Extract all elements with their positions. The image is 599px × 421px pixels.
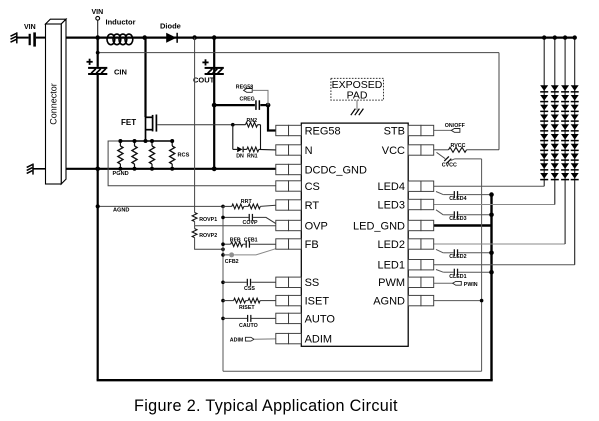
node CREG tap xyxy=(212,103,217,108)
svg-text:CFB2: CFB2 xyxy=(225,259,239,265)
pin LED1 xyxy=(408,260,434,270)
svg-text:LED1: LED1 xyxy=(377,260,405,272)
resistor ROVP2 xyxy=(194,226,196,229)
node RISET bus xyxy=(221,299,225,303)
wire RVCC to VIN route xyxy=(467,149,500,151)
svg-text:FB: FB xyxy=(305,239,319,251)
resistor RCS element 3 xyxy=(151,141,153,146)
svg-text:STB: STB xyxy=(384,125,405,137)
svg-text:LED_GND: LED_GND xyxy=(353,220,405,232)
wire OVP pin line xyxy=(195,225,276,227)
node inductor-diode junction xyxy=(142,35,147,40)
pin DCDC_GND xyxy=(276,164,302,174)
wire N-network left edge xyxy=(232,125,234,150)
wire AGND line xyxy=(98,205,223,207)
svg-text:ADIM: ADIM xyxy=(230,338,244,344)
op-amp U1 IC body xyxy=(301,123,408,346)
wire COVP to OVP pin xyxy=(253,217,276,223)
node gate junction xyxy=(231,123,235,127)
svg-text:AUTO: AUTO xyxy=(305,313,336,325)
wire exposed pad ground lead xyxy=(356,100,358,110)
wire STB lead xyxy=(434,129,452,131)
wire CSS to SS pin xyxy=(251,281,276,283)
wire LED1 to string4 xyxy=(434,264,575,266)
svg-text:CLED2: CLED2 xyxy=(449,254,466,260)
node REG58 junction xyxy=(266,103,271,108)
node diode-OVP junction xyxy=(192,35,197,40)
wire PGND rail xyxy=(98,168,276,170)
LED string 4 diodes xyxy=(571,85,579,180)
pin LED_GND xyxy=(408,220,434,230)
wire VIN terminal lead xyxy=(97,20,99,37)
wire RCS top rail xyxy=(120,140,172,142)
pin AUTO xyxy=(276,313,302,323)
svg-text:ADIM: ADIM xyxy=(305,334,333,346)
wire CAUTO to AUTO pin xyxy=(252,317,276,319)
pin LED2 xyxy=(408,239,434,249)
wire CFB2 stub xyxy=(223,254,229,256)
node CLED3 junction xyxy=(489,213,494,218)
pin FB xyxy=(276,239,302,249)
wire input cap to connector xyxy=(36,37,46,39)
svg-text:CVCC: CVCC xyxy=(442,162,457,168)
node bus top xyxy=(221,205,225,209)
node string 2 top xyxy=(553,35,557,39)
svg-text:REG58: REG58 xyxy=(305,125,341,137)
pin AGND xyxy=(408,295,434,305)
svg-text:RN1: RN1 xyxy=(247,153,258,159)
wire LED string 1 xyxy=(543,38,545,187)
terminal ON/OFF xyxy=(451,129,460,133)
wire REG58 pin feed xyxy=(268,105,276,130)
wire ground to input cap xyxy=(17,37,29,39)
svg-text:VIN: VIN xyxy=(24,24,36,31)
wire VIN thin route horizontal xyxy=(98,52,499,54)
resistor RRT xyxy=(232,204,244,209)
capacitor CREG xyxy=(255,100,257,110)
node COUT on PGND rail xyxy=(212,166,217,171)
capacitor CFB1 xyxy=(243,243,246,245)
pin OVP xyxy=(276,220,302,230)
capacitor CSS xyxy=(247,279,251,286)
resistor RFB xyxy=(231,242,243,247)
capacitor CIN xyxy=(88,67,107,75)
svg-text:RT: RT xyxy=(305,200,320,212)
svg-text:CIN: CIN xyxy=(114,68,127,77)
svg-text:DCDC_GND: DCDC_GND xyxy=(305,164,367,176)
transistor FET Q1 xyxy=(146,115,157,142)
svg-text:COVP: COVP xyxy=(243,220,258,226)
svg-text:PWIN: PWIN xyxy=(464,282,478,288)
diode DN xyxy=(237,147,242,153)
svg-text:Figure 2. Typical Application: Figure 2. Typical Application Circuit xyxy=(134,397,398,415)
wire CVCC to AGND bus xyxy=(451,159,455,161)
svg-text:RN2: RN2 xyxy=(247,118,258,124)
wire FET drain xyxy=(144,38,146,117)
ground input left xyxy=(11,32,17,43)
pin LED3 xyxy=(408,199,434,209)
pin RT xyxy=(276,200,302,210)
wire VIN thin route vertical xyxy=(498,53,500,150)
wire ADIM to pin xyxy=(254,338,276,340)
svg-text:VCC: VCC xyxy=(382,145,405,157)
svg-text:LED4: LED4 xyxy=(377,181,405,193)
node AGND pin junction xyxy=(480,299,484,303)
wire CFB2 to FB pin xyxy=(234,249,276,255)
pin N xyxy=(276,145,302,155)
svg-text:AGND: AGND xyxy=(113,207,129,213)
node CLED4 junction xyxy=(489,192,494,197)
terminal REG58 testpoint xyxy=(244,89,253,93)
svg-text:AGND: AGND xyxy=(373,296,405,308)
wire AGND bus bottom xyxy=(223,370,482,372)
wire N-network top edge xyxy=(233,124,246,126)
resistor RISET xyxy=(234,298,246,303)
svg-text:PGND: PGND xyxy=(113,171,129,177)
terminal ADIM xyxy=(245,337,254,341)
svg-text:CREG: CREG xyxy=(240,97,255,103)
node FET source on rail xyxy=(144,139,148,143)
capacitor CLED3 xyxy=(436,210,443,215)
svg-text:RISET: RISET xyxy=(239,305,255,311)
svg-text:DN: DN xyxy=(236,153,244,159)
wire LED string 3 xyxy=(564,38,566,244)
resistor RCS element 4 xyxy=(171,141,173,146)
wire ROVP node xyxy=(194,222,196,226)
polarity CIN + xyxy=(87,59,93,65)
pin STB xyxy=(408,125,434,135)
node COUT tap xyxy=(212,35,217,40)
wire CS kelvin route xyxy=(108,141,276,186)
node RFB bus xyxy=(221,242,225,246)
wire LED_GND pin xyxy=(434,224,492,226)
wire connector pin2 to PGND xyxy=(66,168,98,170)
svg-text:CS: CS xyxy=(305,181,320,193)
capacitor CAUTO xyxy=(247,315,251,322)
wire DN to RN1 xyxy=(244,148,247,150)
pin VCC xyxy=(408,145,434,155)
svg-text:PAD: PAD xyxy=(347,89,368,101)
wire LED2 to string3 xyxy=(434,243,566,245)
wire LED3 to string2 xyxy=(434,204,555,206)
node VIN on top rail xyxy=(95,35,100,40)
exposed pad xyxy=(331,78,384,100)
svg-text:ROVP2: ROVP2 xyxy=(199,233,217,239)
svg-text:CAUTO: CAUTO xyxy=(239,323,258,329)
polarity COUT + xyxy=(202,59,208,65)
svg-text:FET: FET xyxy=(121,118,136,127)
svg-text:OVP: OVP xyxy=(305,220,328,232)
wire LED_GND vertical xyxy=(490,195,492,381)
wire N-network bottom left xyxy=(233,148,237,150)
svg-text:RVCC: RVCC xyxy=(451,143,466,149)
pin SS xyxy=(276,277,302,287)
wire CAUTO lead xyxy=(223,317,247,319)
svg-text:Diode: Diode xyxy=(160,22,181,31)
svg-text:CLED1: CLED1 xyxy=(449,274,466,280)
pin LED4 xyxy=(408,181,434,191)
resistor ROVP1 xyxy=(192,213,197,222)
capacitor CLED2 xyxy=(436,249,443,252)
LED string 1 diodes xyxy=(540,85,548,180)
wire AGND bus vertical xyxy=(222,206,224,371)
wire N-network right edge xyxy=(260,125,262,150)
pin REG58 xyxy=(276,125,302,135)
wire OVP divider drop xyxy=(194,38,196,213)
wire VIN top rail xyxy=(66,36,575,38)
capacitor COUT xyxy=(205,67,224,75)
capacitor input filter xyxy=(29,34,31,45)
svg-text:CLED4: CLED4 xyxy=(449,196,466,202)
wire left PGND vertical xyxy=(97,75,99,381)
wire AGND pin lead xyxy=(434,300,482,302)
svg-text:PWM: PWM xyxy=(378,277,405,289)
wire PGND bottom border xyxy=(97,379,493,381)
wire CSS lead xyxy=(223,281,247,283)
wire RN1 to N pin xyxy=(259,148,276,151)
resistor RCS element 2 xyxy=(134,141,136,146)
svg-text:Inductor: Inductor xyxy=(106,18,136,27)
node PGND left junction xyxy=(95,167,100,172)
node ROVP2 bus xyxy=(221,248,225,252)
svg-text:CFB1: CFB1 xyxy=(244,237,258,243)
resistor RVCC xyxy=(449,147,467,152)
svg-text:COUT: COUT xyxy=(193,76,215,85)
wire RISET lead xyxy=(223,300,234,302)
LED string 2 diodes xyxy=(551,85,559,180)
inductor xyxy=(107,34,133,45)
node CLED1 junction xyxy=(489,270,494,275)
svg-text:ROVP1: ROVP1 xyxy=(199,217,217,223)
terminal PWIN xyxy=(453,281,462,285)
node COVP bus xyxy=(221,216,225,220)
svg-text:CSS: CSS xyxy=(244,286,255,292)
LED string 3 diodes xyxy=(561,85,569,180)
node CFB2 bus xyxy=(221,253,225,257)
node CLED2 junction xyxy=(489,251,494,256)
wire CREG branch xyxy=(214,104,255,106)
capacitor CVCC xyxy=(437,152,446,158)
wire CFB1 to FB pin xyxy=(250,243,276,245)
wire AGND bus right vertical xyxy=(481,159,483,371)
capacitor COVP xyxy=(249,214,253,221)
node AGND left xyxy=(96,204,100,208)
wire COUT branch xyxy=(213,38,215,169)
diode D1 xyxy=(166,33,176,43)
svg-text:REG58: REG58 xyxy=(236,84,253,90)
wire CREG to junction xyxy=(260,104,268,106)
wire pin2 ground lead xyxy=(33,168,46,170)
svg-text:RFB: RFB xyxy=(230,237,241,243)
wire RISET to ISET pin xyxy=(260,300,276,302)
pin ISET xyxy=(276,295,302,305)
svg-text:ISET: ISET xyxy=(305,296,330,308)
wire PWM lead xyxy=(434,282,453,284)
svg-text:Connector: Connector xyxy=(48,83,58,125)
wire VCC lead xyxy=(434,149,449,151)
node CAUTO bus xyxy=(221,317,225,321)
svg-text:ON/OFF: ON/OFF xyxy=(445,123,466,129)
svg-text:SS: SS xyxy=(305,277,320,289)
wire RT lead xyxy=(223,205,232,207)
node string 3 top xyxy=(563,35,567,39)
svg-text:VIN: VIN xyxy=(92,9,104,16)
capacitor CFB2 xyxy=(229,252,234,257)
connector J1 xyxy=(46,19,67,184)
capacitor CLED1 xyxy=(436,270,443,273)
wire LED4 to string1 xyxy=(434,185,545,187)
capacitor CLED4 xyxy=(436,192,443,195)
node string 1 top xyxy=(542,35,546,39)
wire COVP lead xyxy=(223,216,249,218)
svg-text:RRT: RRT xyxy=(241,199,253,205)
pin CS xyxy=(276,181,302,191)
wire REG58 testpoint lead xyxy=(252,90,268,105)
wire RFB lead xyxy=(223,243,231,245)
ground connector pin2 xyxy=(27,164,33,175)
svg-text:LED2: LED2 xyxy=(377,239,405,251)
svg-text:LED3: LED3 xyxy=(377,199,405,211)
terminal VIN xyxy=(96,16,100,20)
wire ROVP2 to bus xyxy=(195,238,223,250)
wire RRT to RT pin xyxy=(260,205,276,206)
wire CIN branch upper xyxy=(97,38,99,67)
node CSS bus xyxy=(221,281,225,285)
ground exposed pad xyxy=(351,109,364,116)
svg-text:RCS: RCS xyxy=(178,153,190,159)
svg-text:CLED3: CLED3 xyxy=(449,216,466,222)
resistor RN2 xyxy=(246,122,258,127)
wire FET gate xyxy=(157,124,233,126)
wire LED string 4 xyxy=(574,38,576,265)
node string 4 top xyxy=(573,35,577,39)
svg-text:N: N xyxy=(305,145,313,157)
node VIN tap xyxy=(96,51,100,55)
resistor RCS element 1 xyxy=(119,141,121,146)
resistor RN1 xyxy=(247,147,259,152)
pin PWM xyxy=(408,277,434,287)
wire LED string 2 xyxy=(554,38,556,205)
pin ADIM xyxy=(276,333,302,343)
wire N-network top right xyxy=(258,124,261,126)
